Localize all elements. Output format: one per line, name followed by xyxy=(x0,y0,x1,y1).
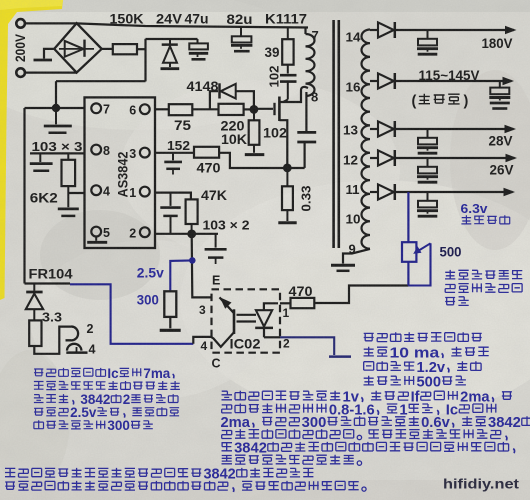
terminal J1 bottom xyxy=(16,68,25,77)
resistor R6 39 xyxy=(287,28,289,40)
U1 pin 5 circle xyxy=(91,227,101,237)
optocoupler U2 dashed box xyxy=(212,289,281,352)
transistor Q1 K1117 gate plate xyxy=(273,103,275,115)
wire AC top to bridge xyxy=(54,22,77,24)
left rail xyxy=(23,108,25,284)
capacitor C6 102 xyxy=(280,74,297,77)
wire R3-R4 xyxy=(192,108,218,110)
resistor R3 75 xyxy=(169,104,193,115)
bridge left-vertex stub xyxy=(44,49,54,59)
capacitor C9 103 xyxy=(170,193,172,206)
R10 ground xyxy=(169,317,171,328)
Q1 drain wire xyxy=(279,90,301,102)
U2 collector xyxy=(212,332,235,347)
capacitor C1 47u xyxy=(189,43,208,49)
arrow 180V xyxy=(505,26,517,35)
capacitor C3 below node B xyxy=(55,112,57,124)
note transistor Ic line2 xyxy=(34,381,180,390)
diode 115-145V xyxy=(378,73,394,88)
U1 pin 8 circle xyxy=(91,145,101,155)
note led current line3 xyxy=(364,360,481,376)
wire rail 115-145V xyxy=(395,80,512,82)
U1 pin 6 circle xyxy=(140,104,150,114)
capacitor C10 103 xyxy=(215,234,217,248)
wire opto pin1 out xyxy=(280,302,291,304)
diode D3 4148 xyxy=(218,83,221,98)
wire rail 26V xyxy=(395,157,515,159)
wire blue to R10 xyxy=(170,260,192,291)
note analysis line3 xyxy=(221,415,530,431)
wire R11 down xyxy=(34,327,71,354)
note led current line2 xyxy=(364,346,489,362)
capacitor C2 82u lead xyxy=(240,27,242,36)
node C junction xyxy=(250,105,259,114)
wire opto pin2 out xyxy=(264,336,280,338)
wire node B to left rail xyxy=(25,107,57,109)
U1 pin 7 circle xyxy=(91,103,101,113)
note filament winding xyxy=(461,215,509,224)
yellow page-edge strip xyxy=(0,0,63,300)
wire node A to vcc xyxy=(56,80,146,82)
wire pin3 out xyxy=(155,152,194,154)
U1 pin 5 ground xyxy=(95,237,97,241)
U2 coupling lines xyxy=(237,314,257,316)
node D junction xyxy=(283,164,292,173)
resistor R1 150K xyxy=(113,44,137,54)
wire R7 to node D xyxy=(219,153,305,168)
capacitor C2 82u xyxy=(232,36,252,42)
transformer T1 core xyxy=(332,20,335,248)
capacitor out 26V xyxy=(427,158,429,167)
R5 ground xyxy=(245,153,264,156)
wire vcc drop xyxy=(55,81,57,108)
wire gate xyxy=(254,108,273,110)
resistor R4 220 xyxy=(219,104,244,115)
bridge rectifier D1 (diamond) xyxy=(54,23,101,72)
node F blue tap xyxy=(189,257,196,264)
wire pot top (blue) xyxy=(407,192,409,242)
note bottom line2 xyxy=(5,481,366,492)
U1 pin 4 circle xyxy=(91,185,101,195)
diode 26V xyxy=(378,150,394,165)
T1 secondary winding xyxy=(362,30,371,249)
wire tap8 down xyxy=(305,92,307,131)
wire tap 28V xyxy=(370,128,378,130)
U2 led D5 xyxy=(256,310,272,326)
wire top rail (+DC) xyxy=(77,23,308,27)
capacitor out 115-145V xyxy=(499,81,501,88)
RP1 wiper arrow xyxy=(416,243,431,252)
note led current line4 xyxy=(364,375,466,391)
bridge inner diode xyxy=(59,48,94,50)
arrow 26V xyxy=(506,154,518,163)
wire tap 180V xyxy=(370,29,378,31)
note analysis line2 xyxy=(222,402,497,418)
arrow 28V xyxy=(505,125,517,134)
wire blue fr104 to opto pin4 xyxy=(70,284,193,344)
note pot adjust line3 xyxy=(445,297,469,306)
resistor R7 470 xyxy=(194,147,219,158)
wire pin1 out xyxy=(155,193,191,200)
note bottom line1 xyxy=(5,467,313,483)
note transistor Ic line3 xyxy=(34,392,178,407)
wire node A top xyxy=(146,38,198,40)
U1 pin 3 circle xyxy=(140,148,150,158)
U2 phototransistor emitter xyxy=(220,297,235,313)
wire AC top xyxy=(25,22,54,24)
wire bridge out xyxy=(102,48,113,50)
wire opto pin4 out xyxy=(193,337,211,344)
wire rail 180V xyxy=(395,29,514,31)
note pot adjust line1 xyxy=(445,270,522,279)
zener D2 24V xyxy=(162,43,178,46)
U2 transistor bar xyxy=(233,309,236,334)
wire pot bottom xyxy=(407,262,409,286)
resistor R2 6K2 body xyxy=(62,160,76,186)
Q1 source wire xyxy=(279,120,287,168)
note led current line1 xyxy=(364,332,482,341)
resistor R10 300 xyxy=(164,291,176,317)
wire R1 to node xyxy=(137,48,146,50)
capacitor out 6.3V xyxy=(427,192,429,201)
capacitor C7 102 xyxy=(297,131,316,134)
node E junction xyxy=(187,230,196,239)
T1 primary winding xyxy=(304,28,306,35)
U2 led bracket xyxy=(264,303,278,310)
wire pin8 net xyxy=(30,152,85,154)
capacitor C8 below pin3 xyxy=(172,153,174,161)
potentiometer RP1 body xyxy=(402,242,416,262)
wire rail 28V xyxy=(395,128,514,130)
R8 ground xyxy=(278,221,296,224)
note analysis line5 xyxy=(222,441,515,457)
wire tap 115-145V xyxy=(370,80,378,82)
wire R4 to node C xyxy=(244,108,254,110)
wire rail corner xyxy=(25,282,71,284)
wire pin2 net xyxy=(155,233,218,235)
diode 28V xyxy=(378,121,394,136)
U1 pin 2 circle xyxy=(140,227,150,237)
terminal J1 top (AC 200V) xyxy=(16,19,25,28)
note analysis line6 xyxy=(222,455,362,466)
node A vertical xyxy=(144,39,146,82)
wire R12 to pot bottom xyxy=(314,286,408,304)
resistor R9 47K xyxy=(186,199,198,224)
node B junction xyxy=(52,104,60,112)
capacitor out 180V xyxy=(427,30,429,39)
note analysis line1 xyxy=(222,390,512,406)
R2 leads xyxy=(67,153,69,159)
resistor R11 3.3 xyxy=(29,320,41,346)
diode 180V xyxy=(378,22,394,37)
diode D3 4148 branch xyxy=(210,91,218,109)
wire pin6 out xyxy=(155,108,169,110)
note analysis line4 xyxy=(222,429,507,440)
wire node E down xyxy=(192,234,212,298)
note pot adjust line2 xyxy=(445,283,522,292)
connector P1 hook 2 xyxy=(66,327,79,341)
U1 pin 1 circle xyxy=(140,187,150,197)
connector P1 hook 4 xyxy=(67,344,81,351)
zener D2 24V lead xyxy=(169,39,171,44)
note transistor Ic line4 xyxy=(34,405,179,420)
RP1 wiper loop xyxy=(408,243,430,285)
diode D4 FR104 xyxy=(33,284,35,291)
T1 tap9 ground xyxy=(343,249,370,264)
wire rail 6.3V xyxy=(395,191,513,193)
wire AC bottom xyxy=(25,71,77,73)
capacitor C4 103 xyxy=(39,153,41,162)
wire node B to IC pin7 xyxy=(56,107,85,109)
resistor R5 10K xyxy=(253,113,255,120)
capacitor out 28V xyxy=(427,129,429,138)
wire tap 26V xyxy=(370,157,378,159)
op-amp/PWM U1 AS3842 body xyxy=(85,97,156,248)
Q1 channel plate xyxy=(278,97,281,122)
wire pin4 net xyxy=(68,192,84,194)
wire tap 6.3V xyxy=(370,191,378,193)
note transistor Ic line1 xyxy=(34,366,174,381)
arrow 6.3V xyxy=(504,188,516,197)
resistor R8 0.33 xyxy=(286,172,288,186)
capacitor C1 47u lead xyxy=(197,39,199,43)
resistor R12 470 xyxy=(291,298,315,308)
note transistor Ic line5 xyxy=(34,418,153,433)
capacitor C5 103 xyxy=(67,193,69,207)
arrow 115-145V xyxy=(503,77,515,86)
diode 6.3V xyxy=(378,184,394,199)
